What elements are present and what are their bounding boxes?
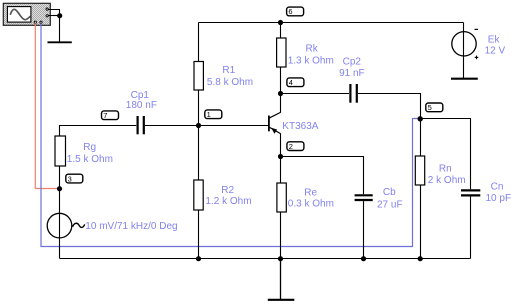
resistor R1 bbox=[194, 62, 203, 91]
label Cp1 value 180 nF bbox=[126, 90, 157, 111]
label Rg value 1.5 k Ohm bbox=[67, 142, 113, 165]
wire rail to Rk bbox=[280, 23, 282, 39]
label R1 value 5.8 k Ohm bbox=[207, 65, 253, 88]
capacitor Cn bbox=[461, 190, 480, 195]
ground (center) bbox=[268, 299, 295, 301]
wire scope probe B (blue) to node 5 bbox=[41, 23, 420, 246]
node 4 label bbox=[287, 78, 304, 87]
svg-text:91 nF: 91 nF bbox=[339, 68, 365, 79]
resistor Rk bbox=[277, 38, 286, 67]
svg-text:6: 6 bbox=[288, 7, 292, 16]
junction scope ground bbox=[57, 13, 62, 18]
junction node 3 bbox=[57, 186, 62, 191]
wire bottom rail bbox=[60, 258, 471, 260]
junction node 5 bbox=[418, 116, 423, 121]
wire scope channel A output to ground node bbox=[48, 10, 59, 16]
wire node 1 to R2 bbox=[198, 126, 200, 181]
wire node 4 to Cp2 bbox=[281, 93, 350, 95]
resistor R2 bbox=[194, 180, 203, 210]
transistor VT1 KT363A bbox=[269, 94, 281, 157]
svg-text:1: 1 bbox=[207, 110, 211, 119]
label Cp2 value 91 nF bbox=[339, 56, 365, 79]
node 3 label bbox=[66, 174, 83, 183]
ground (Ek) bbox=[451, 78, 478, 80]
label R2 value 1.2 k Ohm bbox=[205, 185, 251, 207]
label Cb value 27 uF bbox=[377, 187, 403, 211]
svg-text:Rk: Rk bbox=[306, 44, 319, 55]
wire node 5 to Rn bbox=[420, 119, 422, 156]
svg-text:10 mV/71 kHz/0 Deg: 10 mV/71 kHz/0 Deg bbox=[85, 221, 177, 232]
resistor Re bbox=[277, 183, 286, 212]
wire Cp1 to node 1 bbox=[145, 125, 199, 127]
junction Re bottom bbox=[278, 256, 283, 261]
junction node 1 bbox=[196, 123, 201, 128]
svg-text:KT363A: KT363A bbox=[282, 121, 318, 132]
svg-text:3: 3 bbox=[68, 174, 72, 183]
svg-text:2 k Ohm: 2 k Ohm bbox=[428, 175, 466, 186]
wire top supply rail node 6 bbox=[199, 22, 464, 24]
svg-text:Cb: Cb bbox=[383, 187, 396, 198]
node 5 label bbox=[426, 103, 443, 112]
svg-text:1.2 k Ohm: 1.2 k Ohm bbox=[205, 196, 251, 207]
wire Rn to bottom rail bbox=[420, 185, 422, 259]
svg-text:Cn: Cn bbox=[491, 182, 504, 193]
wire Cn to bottom rail bbox=[470, 197, 472, 259]
wire Cp1 input segment bbox=[60, 126, 137, 137]
wire to scope ground bbox=[59, 16, 61, 43]
svg-text:1.5 k Ohm: 1.5 k Ohm bbox=[67, 154, 113, 165]
ground (scope) bbox=[48, 41, 72, 43]
wire emitter to Re bbox=[280, 157, 282, 184]
svg-text:2: 2 bbox=[289, 142, 293, 151]
svg-text:27 uF: 27 uF bbox=[377, 200, 403, 211]
wire Cb to bottom rail bbox=[363, 201, 365, 258]
wire scope channel B output bbox=[48, 15, 59, 17]
wire Re to bottom rail bbox=[280, 212, 282, 259]
capacitor Cp1 bbox=[138, 116, 144, 134]
resistor Rg bbox=[55, 136, 66, 166]
wire Cp2 to node 5 bbox=[358, 94, 421, 119]
wire R2 to bottom rail bbox=[198, 210, 200, 259]
svg-text:1.3 k Ohm: 1.3 k Ohm bbox=[288, 56, 334, 67]
resistor Rn bbox=[415, 156, 424, 185]
svg-text:Rn: Rn bbox=[439, 163, 452, 174]
junction Rn bottom bbox=[418, 256, 423, 261]
label Re value 0.3 k Ohm bbox=[288, 188, 334, 210]
wire node 5 to Cn branch bbox=[421, 119, 471, 190]
svg-text:12 V: 12 V bbox=[485, 46, 506, 57]
wire Rk to node 4 bbox=[280, 67, 282, 94]
wire R1 to node 1 bbox=[198, 90, 200, 126]
AC source V1 bbox=[47, 189, 84, 259]
wire rail to R1 bbox=[198, 23, 200, 62]
label Rk value 1.3 k Ohm bbox=[288, 44, 334, 67]
svg-text:Cp2: Cp2 bbox=[343, 56, 362, 67]
wire rail to Ek bbox=[463, 23, 465, 79]
svg-text:5.8 k Ohm: 5.8 k Ohm bbox=[207, 77, 253, 88]
wire scope probe A (red) to node 3 bbox=[35, 23, 59, 188]
wire base bbox=[199, 125, 269, 127]
svg-text:7: 7 bbox=[103, 111, 107, 120]
svg-text:Rg: Rg bbox=[83, 142, 96, 153]
svg-text:180 nF: 180 nF bbox=[126, 100, 157, 111]
junction node 4 bbox=[278, 91, 283, 96]
svg-text:4: 4 bbox=[289, 78, 293, 87]
label Cn value 10 pF bbox=[486, 182, 511, 205]
capacitor Cb bbox=[355, 195, 373, 200]
node 7 label bbox=[102, 111, 119, 120]
svg-text:R2: R2 bbox=[221, 185, 234, 196]
wire node 2 to Cb bbox=[281, 157, 364, 195]
battery Ek bbox=[452, 29, 479, 59]
svg-text:10 pF: 10 pF bbox=[486, 193, 511, 204]
capacitor Cp2 bbox=[350, 84, 356, 103]
label Ek value 12 V bbox=[485, 35, 506, 57]
svg-text:Ek: Ek bbox=[488, 35, 501, 46]
junction node 2 bbox=[278, 154, 283, 159]
junction R2 bottom bbox=[196, 256, 201, 261]
svg-text:5: 5 bbox=[428, 103, 432, 112]
svg-text:0.3 k Ohm: 0.3 k Ohm bbox=[288, 198, 334, 209]
wire ground stem center bbox=[280, 259, 282, 300]
junction Cb bottom bbox=[361, 256, 366, 261]
svg-text:Re: Re bbox=[304, 188, 317, 199]
wire Rg to node 3 bbox=[59, 166, 61, 189]
node 1 label bbox=[205, 110, 222, 119]
node 6 label bbox=[287, 7, 304, 16]
label Rn value 2 k Ohm bbox=[428, 163, 466, 186]
svg-text:R1: R1 bbox=[222, 65, 235, 76]
node 2 label bbox=[287, 142, 304, 151]
oscilloscope XSC1 bbox=[3, 3, 50, 25]
junction node 6 bbox=[278, 20, 283, 25]
